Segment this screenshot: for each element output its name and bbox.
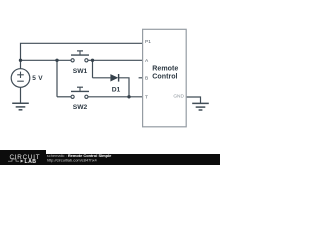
svg-text:B: B [145, 76, 148, 82]
svg-text:GND: GND [173, 94, 184, 100]
svg-text:http://circuitlab.com/c847hx4: http://circuitlab.com/c847hx4 [47, 158, 98, 163]
svg-text:SW2: SW2 [73, 104, 88, 111]
svg-text:P1: P1 [145, 39, 151, 45]
svg-text:Control: Control [152, 73, 177, 81]
svg-text:LAB: LAB [25, 159, 37, 165]
svg-text:5 V: 5 V [32, 75, 43, 82]
svg-text:Remote: Remote [152, 65, 178, 73]
svg-text:D1: D1 [112, 87, 121, 94]
svg-text:SW1: SW1 [73, 68, 88, 75]
svg-text:T: T [145, 95, 148, 101]
